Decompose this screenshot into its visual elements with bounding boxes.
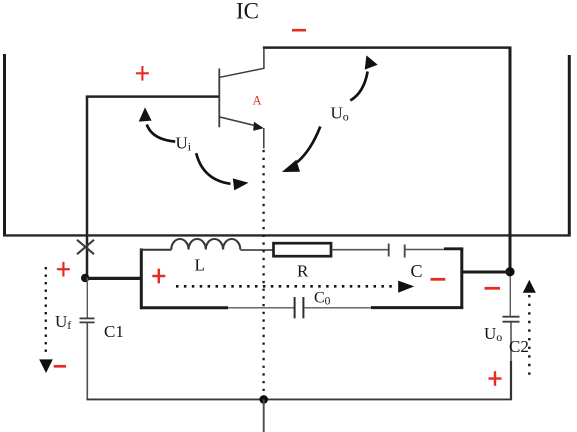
svg-text:C1: C1 [104,322,124,341]
wire C1 upper lead [86,278,88,318]
wire C2 lower lead [510,322,512,361]
wire bottom rail [86,398,511,400]
polarity plus left [57,262,70,277]
wire input left vertical [86,96,89,279]
svg-text:IC: IC [236,0,259,24]
polarity minus right [485,287,501,290]
capacitor C2 [503,317,520,322]
polarity minus near C [431,278,446,281]
arrow Uo measure dotted [528,295,530,380]
wire tank bottom edge thick-left [140,306,228,309]
transistor emitter diagonal [220,117,256,126]
arrow Ui lower curved [196,153,230,184]
svg-text:C: C [411,261,423,281]
wire tank bottom edge thick-right [371,306,463,309]
node feedback junction [81,274,89,282]
svg-text:Uo: Uo [331,104,349,124]
polarity plus bottom-right [489,371,502,386]
arrow Uo upper curved [350,72,367,101]
transistor emitter arrowhead [253,122,264,131]
wire R-to-C [332,249,389,251]
wire outer-right vertical [568,55,571,237]
svg-text:R: R [297,262,309,281]
arrow Uo upper head [365,55,378,69]
arrow Uf measure head [39,359,53,373]
svg-text:L: L [195,256,205,275]
capacitor C0 [295,297,304,318]
node bottom junction [259,395,268,404]
resistor R [274,243,332,256]
polarity plus tank [152,269,165,284]
wire tank-to-output horizontal [461,271,510,274]
arrow Ui lower head [233,178,249,190]
wire collector top rail [263,46,511,49]
wire feedback horizontal [85,277,142,280]
crossing mark X [77,240,94,254]
wire C-to-corner thick [444,247,463,250]
wire outer-left vertical [3,54,6,237]
svg-text:Uo: Uo [484,324,502,344]
arrow Uo measure head [523,280,536,293]
transistor collector diagonal [220,68,264,77]
polarity plus upper-left [136,66,149,81]
arrow Ui upper head [139,107,152,121]
node output junction [505,267,514,276]
emitter dotted vertical [262,150,264,396]
svg-text:C0: C0 [314,290,331,308]
wire tank right edge [460,248,463,309]
arrow Ui upper curved [147,125,175,142]
svg-text:C2: C2 [509,337,529,356]
wire base input horizontal [86,95,220,98]
svg-text:A: A [253,94,262,108]
wire C-to-corner thin [405,249,444,251]
arrow Uf measure dotted [45,267,47,357]
arrow Uo lower curved [297,127,320,163]
wire C1 lower lead [86,323,88,400]
wire tank left edge [140,248,143,309]
arrow Uo lower head [282,160,300,172]
polarity minus top [292,29,306,32]
capacitor C1 [80,318,95,322]
transistor emitter vertical [263,128,265,149]
wire tank bottom edge thin-right [304,307,371,309]
wire output right vertical [509,47,512,273]
transistor base bar [218,69,220,128]
wire long horizontal rail [3,234,571,236]
wire tank bottom edge thin-left [228,307,294,309]
wire L-to-R [240,249,273,251]
capacitor C [389,244,405,258]
wire tank top-left segment [140,249,172,251]
phase arrow dotted horizontal [176,285,397,288]
svg-text:Uf: Uf [55,312,71,332]
wire C2 upper lead [509,274,511,317]
inductor L [171,239,240,250]
polarity minus bottom-left [54,365,66,368]
wire bottom stub [263,399,265,432]
phase arrow head [398,281,414,293]
transistor collector vertical [263,48,265,69]
svg-text:Ui: Ui [176,134,192,154]
